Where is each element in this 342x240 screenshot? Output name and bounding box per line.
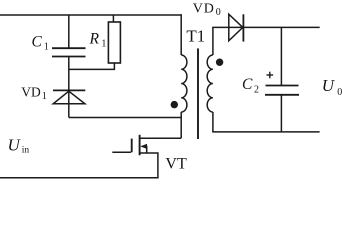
- svg-text:0: 0: [216, 7, 221, 18]
- wire: input top rail: [0, 14, 181, 16]
- label VD0: [193, 2, 221, 18]
- capacitor C2: [265, 86, 299, 95]
- wire: drain lead to primary bottom: [140, 137, 182, 139]
- wire: R1 top stub: [112, 15, 114, 22]
- wire: primary bottom lead to drain: [180, 112, 182, 138]
- transistor VT gate bar: [131, 139, 133, 153]
- capacitor C1: [52, 48, 86, 56]
- transformer T1 secondary winding: [207, 55, 213, 112]
- label VD1: [21, 85, 47, 102]
- svg-text:C: C: [32, 34, 43, 51]
- wire: output top rail: [243, 26, 319, 28]
- wire: C1 top lead: [68, 15, 70, 48]
- svg-text:C: C: [242, 76, 253, 93]
- svg-text:1: 1: [42, 91, 47, 102]
- label C2: [242, 76, 259, 95]
- label Uin: [8, 136, 30, 156]
- C2 plus polarity mark: [267, 72, 274, 79]
- svg-text:R: R: [89, 30, 100, 47]
- wire: output bottom rail: [212, 131, 319, 133]
- svg-text:VD: VD: [21, 85, 41, 100]
- wire: C2 top lead: [280, 27, 282, 85]
- transistor VT gate wire: [112, 151, 131, 153]
- wire: secondary bottom lead: [212, 112, 214, 132]
- secondary polarity dot: [216, 59, 223, 66]
- svg-text:VD: VD: [193, 2, 215, 17]
- svg-text:0: 0: [337, 87, 342, 98]
- svg-text:U: U: [322, 76, 336, 95]
- svg-text:T1: T1: [186, 26, 205, 45]
- wire: R1 bottom stub and parallel link to C1: [69, 63, 115, 69]
- primary polarity dot: [171, 101, 178, 108]
- svg-text:in: in: [22, 146, 30, 156]
- svg-text:1: 1: [101, 38, 106, 49]
- transistor VT channel bar: [139, 135, 141, 156]
- wire: C1 bottom lead down to VD1: [68, 57, 70, 118]
- svg-text:VT: VT: [165, 156, 187, 173]
- label U0: [322, 76, 342, 98]
- wire: C2 bottom lead: [280, 95, 282, 132]
- wire: input bottom rail: [0, 177, 159, 179]
- transformer core: [197, 48, 199, 139]
- svg-text:2: 2: [254, 84, 259, 95]
- svg-text:1: 1: [44, 42, 49, 53]
- wire: secondary top lead: [212, 27, 214, 55]
- svg-text:U: U: [8, 136, 22, 155]
- label R1: [89, 30, 107, 49]
- wire: secondary top to VD0 anode: [212, 26, 243, 28]
- wire: source lead: [140, 153, 158, 178]
- transformer T1 primary winding: [181, 55, 187, 112]
- wire: VD1 anode lead to drain node: [69, 117, 181, 119]
- diode VD0 cathode bar: [242, 14, 244, 41]
- diode VD1 triangle: [53, 91, 85, 104]
- transistor VT substrate arrow: [142, 146, 147, 153]
- label C1: [32, 34, 49, 53]
- resistor R1: [108, 22, 120, 63]
- wire: primary top lead: [180, 14, 182, 55]
- diode VD0 triangle: [229, 14, 243, 41]
- diode VD1 cathode bar: [53, 89, 85, 91]
